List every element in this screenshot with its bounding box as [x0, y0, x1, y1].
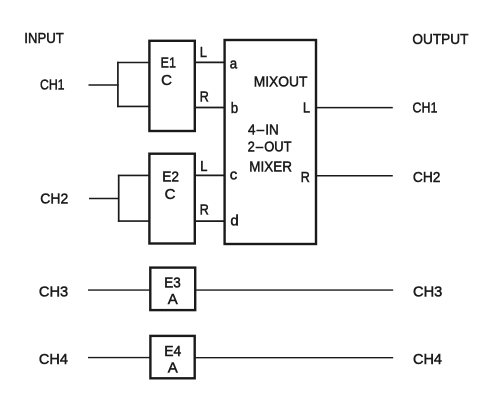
- svg-text:c: c: [230, 166, 238, 183]
- wire CH1 branch vertical: [117, 62, 119, 107]
- svg-text:C: C: [161, 72, 172, 89]
- svg-text:CH2: CH2: [413, 169, 441, 186]
- svg-text:E1: E1: [161, 55, 177, 72]
- svg-text:A: A: [168, 291, 178, 308]
- wire CH1 branch bottom: [117, 105, 150, 107]
- svg-text:4 – IN: 4 – IN: [248, 122, 279, 139]
- box mixer U1: [225, 40, 316, 244]
- svg-text:E2: E2: [162, 168, 179, 185]
- wire mixer L output: [317, 107, 393, 109]
- wire CH2 branch top: [118, 174, 150, 176]
- svg-text:CH1: CH1: [413, 99, 438, 116]
- svg-text:CH3: CH3: [413, 283, 442, 300]
- wire CH2 branch bottom: [118, 220, 150, 222]
- wire CH4 right: [195, 357, 394, 359]
- svg-text:E4: E4: [164, 343, 181, 360]
- wire E2 R out: [195, 220, 226, 222]
- wire E1 R out: [195, 107, 226, 109]
- wire CH3 left: [88, 289, 151, 291]
- wire CH1 branch top: [117, 62, 150, 64]
- svg-text:MIXOUT: MIXOUT: [254, 73, 308, 90]
- svg-text:INPUT: INPUT: [24, 30, 64, 47]
- wire CH2 input stub: [89, 198, 120, 200]
- svg-text:A: A: [168, 360, 178, 377]
- wire CH3 right: [195, 289, 393, 291]
- wire E2 L out: [195, 174, 226, 176]
- wire CH4 left: [88, 357, 151, 359]
- wire E1 L out: [195, 61, 226, 63]
- svg-text:R: R: [200, 202, 209, 219]
- svg-text:CH3: CH3: [39, 284, 68, 301]
- svg-text:CH4: CH4: [39, 351, 68, 368]
- box E2: [149, 154, 194, 244]
- svg-text:2 – OUT: 2 – OUT: [248, 139, 292, 156]
- svg-text:CH1: CH1: [40, 76, 65, 93]
- svg-text:C: C: [165, 186, 176, 203]
- svg-text:d: d: [230, 212, 238, 229]
- svg-text:L: L: [200, 158, 207, 175]
- svg-text:L: L: [303, 99, 310, 116]
- box E3: [150, 268, 195, 311]
- svg-text:OUTPUT: OUTPUT: [412, 31, 468, 48]
- svg-text:MIXER: MIXER: [249, 159, 292, 176]
- box E1: [149, 41, 194, 131]
- svg-text:CH4: CH4: [413, 351, 442, 368]
- wire CH1 input stub: [89, 84, 119, 86]
- svg-text:b: b: [231, 100, 238, 117]
- svg-text:R: R: [301, 169, 310, 186]
- svg-text:a: a: [230, 55, 238, 72]
- wire CH2 branch vertical: [118, 175, 120, 222]
- wire mixer R output: [317, 175, 393, 177]
- svg-text:R: R: [200, 89, 209, 106]
- svg-text:L: L: [200, 44, 207, 61]
- svg-text:E3: E3: [164, 274, 181, 291]
- svg-text:CH2: CH2: [40, 190, 68, 207]
- box E4: [150, 336, 194, 378]
